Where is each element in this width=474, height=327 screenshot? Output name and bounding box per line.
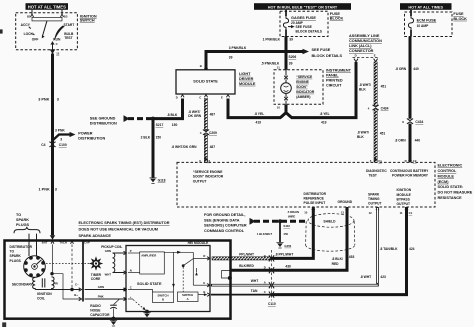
svg-text:LINK (ALCL): LINK (ALCL) <box>349 44 372 48</box>
ECM pin function: ignition module bypass output <box>397 188 412 206</box>
wire 1 PNK/BLK 39 <box>285 37 288 52</box>
svg-text:B: B <box>264 254 266 258</box>
svg-text:12: 12 <box>369 211 373 215</box>
wire into gages fuse <box>285 10 287 16</box>
connector below ignition switch <box>50 49 60 55</box>
svg-text:PRI: PRI <box>53 282 58 286</box>
svg-text:39: 39 <box>289 62 293 66</box>
hot in run black label <box>254 3 351 10</box>
svg-text:419: 419 <box>321 121 327 125</box>
wire PPL/WHT twisted row from HEI module pin R <box>212 257 271 260</box>
svg-text:DISTRIBUTION: DISTRIBUTION <box>90 121 117 125</box>
svg-text:S206: S206 <box>289 55 297 59</box>
ignition coil label <box>37 292 52 300</box>
wire GRN to module pin C <box>85 285 127 291</box>
svg-text:SEE GROUND: SEE GROUND <box>90 116 116 120</box>
splice S217 <box>151 117 177 127</box>
connector C434 (451) <box>368 105 389 111</box>
svg-text:INDICATOR: INDICATOR <box>296 90 315 94</box>
svg-text:CIRCUIT: CIRCUIT <box>326 84 342 88</box>
wire .8 YEL 419 run <box>228 99 281 118</box>
svg-text:C: C <box>130 285 132 289</box>
svg-text:3 PNK: 3 PNK <box>55 128 65 132</box>
svg-text:C434: C434 <box>381 106 389 110</box>
svg-text:SENSORS) COMPUTER: SENSORS) COMPUTER <box>204 224 247 228</box>
svg-text:BLOCK: BLOCK <box>330 17 344 21</box>
svg-text:TO: TO <box>10 250 15 254</box>
pickup coil <box>113 253 125 273</box>
wire .8 WHT/BLK 451 (twisted) upper <box>374 62 377 105</box>
hot at all times label (right) <box>400 3 452 10</box>
svg-text:INSTRUMENT: INSTRUMENT <box>326 69 352 73</box>
assembly line communication link text <box>349 34 382 53</box>
switch A <box>178 292 199 302</box>
svg-text:B1: B1 <box>27 15 31 19</box>
svg-text:SOLID STATE:: SOLID STATE: <box>438 185 464 189</box>
svg-text:CORE: CORE <box>91 277 101 281</box>
svg-text:POWER: POWER <box>78 132 93 136</box>
svg-text:IGNITION: IGNITION <box>397 188 412 192</box>
wire: PNK feed from ignition switch down to distributor BAT <box>51 54 54 236</box>
wire label 3 PNK 3 <box>38 97 59 101</box>
shield cylinder <box>306 214 355 252</box>
svg-text:430: 430 <box>285 264 291 268</box>
svg-text:MODULE: MODULE <box>239 82 256 86</box>
svg-text:G256: G256 <box>284 244 291 248</box>
svg-text:DISTRIBUTOR: DISTRIBUTOR <box>10 245 33 249</box>
svg-text:WHT: WHT <box>251 279 259 283</box>
svg-text:451: 451 <box>381 84 387 88</box>
svg-text:C110: C110 <box>268 302 276 306</box>
switch B <box>153 292 174 303</box>
ignition switch <box>16 10 78 50</box>
svg-text:DRIVER: DRIVER <box>239 77 254 81</box>
svg-text:.8 YEL: .8 YEL <box>320 112 330 116</box>
svg-text:PNK: PNK <box>98 294 104 298</box>
svg-text:D: D <box>355 54 357 58</box>
wire .8 WHT/BLK 451 lower <box>374 110 377 163</box>
ECM pin R C2 <box>405 158 417 163</box>
svg-text:SEE (ENGINE DATA: SEE (ENGINE DATA <box>204 218 240 222</box>
timer core (star wheel) <box>89 256 103 270</box>
svg-text:TEST: TEST <box>64 36 72 40</box>
pin + to module ground <box>128 299 151 318</box>
BAT terminal <box>42 235 55 274</box>
svg-text:BAT: BAT <box>42 241 48 245</box>
ECM label text <box>438 164 473 200</box>
svg-text:419: 419 <box>256 121 262 125</box>
SES text <box>296 75 315 99</box>
wire 1 BLK/WHT 450 to ground <box>279 221 281 242</box>
fuse block label (right) <box>453 12 467 21</box>
svg-text:C: C <box>200 131 202 135</box>
instrument panel printed circuit text <box>326 69 352 88</box>
svg-text:10: 10 <box>304 211 308 215</box>
svg-text:453: 453 <box>349 255 355 259</box>
switch A to pin B arrow <box>198 293 208 296</box>
svg-text:POWER FOR MEMORY: POWER FOR MEMORY <box>392 173 429 177</box>
ALCL connector terminals <box>353 54 380 62</box>
svg-text:39: 39 <box>289 38 293 42</box>
amplifier <box>140 252 165 274</box>
svg-text:BLK: BLK <box>359 87 366 91</box>
svg-text:TEST: TEST <box>369 173 377 177</box>
svg-text:GRN: GRN <box>98 285 104 289</box>
svg-text:“SERVICE ENGINE: “SERVICE ENGINE <box>193 170 223 174</box>
svg-text:R: R <box>203 254 205 258</box>
svg-text:WIRE: WIRE <box>288 214 295 218</box>
wire .8 TAN/BLK 424 from ECM pin 11 <box>271 207 407 295</box>
svg-text:FUSE: FUSE <box>453 12 464 16</box>
svg-text:C–: C– <box>75 283 79 287</box>
svg-text:BLK/RED: BLK/RED <box>239 264 254 268</box>
svg-text:N: N <box>130 268 132 272</box>
svg-text:CONTROL: CONTROL <box>438 169 457 173</box>
svg-text:FOR GROUND DETAIL,: FOR GROUND DETAIL, <box>204 213 245 217</box>
coil C- wire <box>35 272 81 291</box>
svg-text:G118: G118 <box>158 179 166 183</box>
svg-text:3 PNK/BLK: 3 PNK/BLK <box>229 46 247 50</box>
svg-text:BLOCK DETAILS: BLOCK DETAILS <box>312 54 343 58</box>
svg-text:.8 BLK/: .8 BLK/ <box>332 257 343 261</box>
wire .5 PNK/BLK 39 to indicator <box>285 52 288 70</box>
svg-text:MODULE: MODULE <box>438 174 455 178</box>
svg-text:GROUND: GROUND <box>338 200 353 204</box>
svg-text:.8 WHT/: .8 WHT/ <box>357 131 369 135</box>
svg-text:RESISTANCE: RESISTANCE <box>438 196 463 200</box>
svg-text:11: 11 <box>277 66 280 70</box>
svg-text:B3: B3 <box>64 15 68 19</box>
svg-text:.8 TAN/BLK: .8 TAN/BLK <box>380 247 399 251</box>
svg-text:OUTPUT: OUTPUT <box>368 202 382 206</box>
svg-text:MODULE: MODULE <box>397 193 412 197</box>
svg-text:DOES NOT USE MECHANICAL OR VAC: DOES NOT USE MECHANICAL OR VACUUM <box>79 228 158 232</box>
svg-text:450: 450 <box>283 232 288 236</box>
svg-text:SOON” INDICATOR: SOON” INDICATOR <box>193 175 224 179</box>
to spark plugs text + brace <box>14 213 40 233</box>
svg-text:IGNITION: IGNITION <box>37 292 52 296</box>
svg-text:.8 WHT/: .8 WHT/ <box>359 83 371 87</box>
svg-text:SECONDARY: SECONDARY <box>12 282 34 286</box>
coil B+ feed <box>52 274 82 301</box>
wire: 2 BLK 150 to ground <box>152 119 155 178</box>
svg-text:ELECTRONIC: ELECTRONIC <box>438 164 463 168</box>
svg-text:B: B <box>203 290 205 294</box>
svg-text:12: 12 <box>56 52 60 56</box>
wire .8 WHT 423 from ECM pin 12 <box>376 207 379 284</box>
svg-text:3: 3 <box>55 188 57 192</box>
svg-text:REFERENCE: REFERENCE <box>304 196 325 200</box>
wire BLK/RED 453 from ECM pin 13 <box>231 207 347 270</box>
svg-text:E: E <box>374 54 376 58</box>
svg-text:SPARK: SPARK <box>10 254 22 258</box>
see fuse block details text <box>312 48 343 58</box>
svg-text:39: 39 <box>229 56 233 60</box>
svg-text:GRN: GRN <box>105 249 111 253</box>
svg-text:150: 150 <box>156 136 162 140</box>
svg-text:150: 150 <box>172 123 178 127</box>
svg-text:RADIO: RADIO <box>90 304 101 308</box>
svg-text:BLOCK: BLOCK <box>453 17 467 21</box>
svg-text:423: 423 <box>380 275 386 279</box>
ECM pin 6 C1 <box>199 158 210 163</box>
svg-text:B: B <box>162 297 164 301</box>
svg-text:C: C <box>199 96 201 100</box>
splice S206 with see fuse block arrow <box>284 49 309 60</box>
ECM bottom pins 10 13 12 11 C1 <box>304 208 412 215</box>
svg-text:451: 451 <box>380 131 386 135</box>
power distribution branch arrow <box>53 128 76 141</box>
svg-text:BYPASS: BYPASS <box>397 197 411 201</box>
svg-text:B+: B+ <box>74 293 78 297</box>
svg-text:SHIELD: SHIELD <box>323 220 336 224</box>
svg-text:.8 ORN: .8 ORN <box>395 67 407 71</box>
connector C110 <box>264 250 276 306</box>
wire .8 ORN 440 upper <box>409 37 412 119</box>
service engine soon indicator box <box>274 70 323 105</box>
bottom left corner smudge <box>2 322 6 327</box>
svg-text:LIGHT: LIGHT <box>239 72 251 76</box>
ECM pin 5 C1 <box>370 158 382 163</box>
svg-text:.8 ORN: .8 ORN <box>395 139 407 143</box>
svg-text:440: 440 <box>413 67 419 71</box>
svg-text:S402: S402 <box>283 224 290 228</box>
svg-text:C434: C434 <box>415 120 423 124</box>
for ground detail text <box>204 213 247 233</box>
svg-text:COIL: COIL <box>37 296 45 300</box>
svg-text:WHT: WHT <box>105 272 112 276</box>
svg-text:2 BLK: 2 BLK <box>141 136 151 140</box>
svg-text:LOCK: LOCK <box>24 32 34 36</box>
svg-text:SWITCH: SWITCH <box>80 19 95 23</box>
svg-text:SOON”: SOON” <box>296 85 308 89</box>
wire: .8 BLK ground distribution (dashed continuation) <box>124 115 154 122</box>
svg-text:AMPLIFIER: AMPLIFIER <box>141 253 156 257</box>
svg-text:PRINTED: PRINTED <box>326 79 343 83</box>
bottom pins D C E <box>176 95 230 100</box>
svg-text:SPARK: SPARK <box>16 218 29 222</box>
svg-text:C100: C100 <box>59 143 67 147</box>
svg-text:ACCY: ACCY <box>21 23 31 27</box>
CAP divider <box>83 241 90 302</box>
radio noise capacitor label <box>90 304 110 317</box>
svg-text:TAN: TAN <box>251 289 258 293</box>
svg-text:TIMING: TIMING <box>368 197 380 201</box>
wire .8 WHT/DK GRN 487 (twisted) upper <box>204 99 207 131</box>
svg-text:(AMBER): (AMBER) <box>296 95 310 99</box>
svg-text:DISTRIBUTION: DISTRIBUTION <box>78 136 105 140</box>
svg-text:1 PNK: 1 PNK <box>39 188 50 192</box>
bulb lamp <box>281 70 292 105</box>
svg-text:3: 3 <box>60 138 62 142</box>
svg-text:3 PNK: 3 PNK <box>38 97 49 101</box>
timer core label <box>91 273 102 281</box>
svg-text:BLOCK DETAILS: BLOCK DETAILS <box>296 29 323 33</box>
wire .8 ORN 440 lower <box>409 124 412 163</box>
svg-text:HEI MODULE: HEI MODULE <box>188 241 209 245</box>
svg-text:C209: C209 <box>209 131 217 135</box>
module internal circuit <box>164 251 198 292</box>
svg-text:CONTINUOUS BATTERY: CONTINUOUS BATTERY <box>390 169 429 173</box>
light driver module label <box>239 72 256 86</box>
svg-text:COMMAND CONTROL: COMMAND CONTROL <box>204 229 245 233</box>
wire 3 PNK/BLK to light driver module <box>206 52 286 70</box>
light driver module U2 <box>176 70 235 94</box>
connector C434 (440) <box>402 119 423 124</box>
svg-text:HOT AT ALL TIMES: HOT AT ALL TIMES <box>28 4 66 9</box>
svg-text:C4: C4 <box>41 143 45 147</box>
gages fuse box <box>280 11 328 36</box>
svg-text:“SERVICE: “SERVICE <box>296 75 313 79</box>
svg-text:CONNECTOR: CONNECTOR <box>349 49 374 53</box>
svg-text:R: R <box>405 159 407 163</box>
svg-text:NOISE: NOISE <box>90 308 101 312</box>
ECM pin function: diagnostic test <box>366 169 387 178</box>
svg-text:.8 BLK: .8 BLK <box>167 113 178 117</box>
svg-text:PPL/WHT: PPL/WHT <box>239 253 254 257</box>
svg-text:B: B <box>200 64 202 68</box>
svg-text:.8 WHT: .8 WHT <box>360 275 371 279</box>
power distribution text <box>78 132 105 141</box>
svg-text:CAPACITOR: CAPACITOR <box>90 313 110 317</box>
ground G118 <box>149 178 165 184</box>
ground G256 <box>276 243 291 249</box>
see ground distribution text <box>90 116 117 125</box>
ignition switch label <box>80 14 97 22</box>
svg-text:D: D <box>264 266 266 270</box>
module left pins P N C + <box>124 249 132 301</box>
svg-text:(ECM): (ECM) <box>438 180 450 184</box>
wire pin C to switch B <box>128 290 153 293</box>
ECM pin function: continuous battery power <box>390 169 429 178</box>
svg-text:PLUGS: PLUGS <box>10 259 22 263</box>
svg-text:OUTPUT: OUTPUT <box>193 179 207 183</box>
fuse block label (left) <box>330 12 344 21</box>
svg-text:3: 3 <box>57 97 59 101</box>
svg-text:RED: RED <box>332 262 340 266</box>
svg-text:SOLID STATE: SOLID STATE <box>137 282 162 286</box>
hot at all times label (left) <box>26 3 69 10</box>
svg-text:COMMUNICATION: COMMUNICATION <box>349 39 382 43</box>
ECM pin function: distributor reference pulse input <box>304 192 327 205</box>
svg-text:DK GRN: DK GRN <box>188 114 202 118</box>
svg-text:1 PNK/BLK: 1 PNK/BLK <box>263 38 281 42</box>
svg-text:PLUGS: PLUGS <box>16 223 30 227</box>
svg-text:.8 YEL: .8 YEL <box>254 112 264 116</box>
svg-text:424: 424 <box>409 247 415 251</box>
connector C209 <box>200 130 217 136</box>
svg-text:487: 487 <box>210 112 216 116</box>
svg-text:DO NOT MEASURE: DO NOT MEASURE <box>438 191 473 195</box>
svg-text:A: A <box>187 297 189 301</box>
svg-text:13: 13 <box>341 211 345 215</box>
splice S402 <box>278 219 290 228</box>
svg-text:ELECTRONIC SPARK TIMING (EST): ELECTRONIC SPARK TIMING (EST) DISTRIBUTO… <box>79 221 170 225</box>
svg-text:OFF: OFF <box>32 38 39 42</box>
svg-text:440: 440 <box>415 139 421 143</box>
wire PNK to module pin + <box>85 294 126 299</box>
svg-text:CAP: CAP <box>84 241 90 245</box>
svg-text:S217: S217 <box>156 123 164 127</box>
svg-text:HOT IN RUN, BULB “TEST” OR STA: HOT IN RUN, BULB “TEST” OR START <box>268 5 338 9</box>
svg-text:SOLID STATE: SOLID STATE <box>193 80 218 84</box>
svg-text:BLK: BLK <box>357 135 364 139</box>
left edge artifact <box>0 29 3 33</box>
svg-text:1 BLK/WHT: 1 BLK/WHT <box>257 232 273 236</box>
svg-text:10 AMP: 10 AMP <box>417 24 430 28</box>
BLK/RED ground loop on distributor case <box>222 271 232 280</box>
wire label 1 PNK 3 <box>39 188 57 192</box>
gages fuse labels <box>288 16 323 33</box>
svg-text:TO: TO <box>16 213 21 217</box>
svg-text:487: 487 <box>210 145 216 149</box>
drain wire (dashed) with arrow to ground detail <box>250 218 308 225</box>
svg-text:D: D <box>176 96 178 100</box>
spark plug wires into cap <box>28 234 30 256</box>
radio noise capacitor <box>110 299 120 326</box>
EST distributor text <box>79 221 170 238</box>
ECM (electronic control module) <box>177 162 435 207</box>
wire PPL/WHT 430 from ECM pin 10 <box>271 207 313 258</box>
svg-text:SEE FUSE: SEE FUSE <box>312 48 331 52</box>
svg-text:ENGINE: ENGINE <box>296 80 309 84</box>
ECM pin function: spark timing output <box>368 192 382 205</box>
svg-text:ASSEMBLY LINE: ASSEMBLY LINE <box>349 34 380 38</box>
svg-text:PULSE INPUT: PULSE INPUT <box>304 201 326 205</box>
svg-text:ECM FUSE: ECM FUSE <box>417 19 437 23</box>
svg-text:OUTPUT: OUTPUT <box>397 202 411 206</box>
svg-text:PANEL: PANEL <box>326 74 339 78</box>
svg-text:A: A <box>264 281 266 285</box>
svg-text:.8 PPL/WHT: .8 PPL/WHT <box>275 253 294 257</box>
fuse ECM <box>408 16 413 30</box>
wire from bulb to YEL run (peak junction) <box>285 104 288 113</box>
wire: .8 BLK from light driver module pin D <box>152 99 183 119</box>
svg-text:SPARK ADVANCE: SPARK ADVANCE <box>79 234 112 238</box>
svg-text:10: 10 <box>277 106 281 110</box>
svg-text:FUSE: FUSE <box>330 12 341 16</box>
wire .8 WHT/DK GRN 487 lower <box>204 134 207 162</box>
svg-text:DIAGNOSTIC: DIAGNOSTIC <box>366 169 387 173</box>
svg-text:.8 WHT/DK GRN: .8 WHT/DK GRN <box>171 145 197 149</box>
svg-text:C: C <box>56 42 58 46</box>
svg-text:E: E <box>203 281 205 285</box>
svg-text:SEE FUSE: SEE FUSE <box>296 25 313 29</box>
module right pins R E B <box>193 254 210 296</box>
connector C100 <box>41 142 67 147</box>
ECM pin function: SES indicator output <box>193 170 224 184</box>
ECM fuse box <box>405 12 453 37</box>
pin B top <box>200 64 208 69</box>
svg-text:C: C <box>264 290 266 294</box>
HEI module box <box>126 246 210 312</box>
svg-text:P: P <box>130 249 132 253</box>
fuse GAGES <box>283 16 288 29</box>
ignition coil windings <box>33 277 59 290</box>
svg-text:E: E <box>221 96 223 100</box>
svg-text:11: 11 <box>400 211 403 215</box>
distributor cap with rotor <box>24 256 46 278</box>
svg-text:TACH: TACH <box>59 241 67 245</box>
distributor housing box <box>5 241 231 319</box>
svg-text:SPARK: SPARK <box>368 192 380 196</box>
distributor to spark plugs text <box>10 245 33 263</box>
svg-text:START: START <box>64 23 75 27</box>
svg-text:HOT AT ALL TIMES: HOT AT ALL TIMES <box>408 5 443 9</box>
wires pickup to amplifier <box>128 252 140 254</box>
TACH terminal <box>59 241 73 291</box>
svg-text:DISTRIBUTOR: DISTRIBUTOR <box>304 192 327 196</box>
